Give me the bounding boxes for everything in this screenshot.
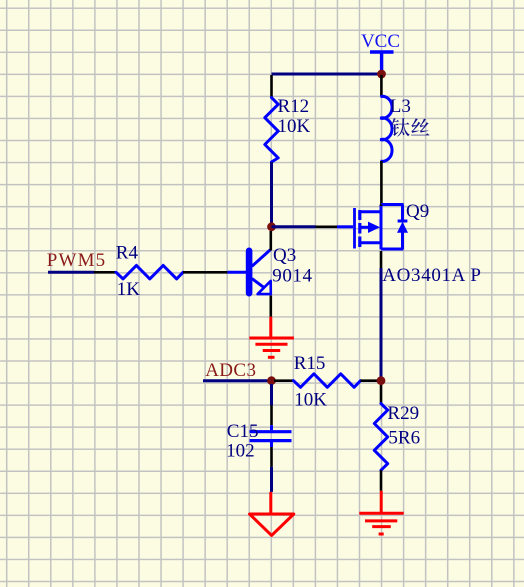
ground earth bottom-right xyxy=(359,491,403,534)
pin Q9 drain top xyxy=(380,205,383,207)
value label 钛丝 xyxy=(391,118,430,137)
resistor R4 xyxy=(116,243,183,300)
capacitor C15 xyxy=(226,421,291,461)
svg-text:VCC: VCC xyxy=(361,31,400,52)
pin C15 top xyxy=(270,405,273,425)
svg-text:10K: 10K xyxy=(278,116,311,137)
svg-text:R12: R12 xyxy=(278,96,310,117)
resistor R12 xyxy=(265,75,311,162)
pin R29 bottom xyxy=(380,470,383,491)
wire C15 top xyxy=(270,384,273,405)
pin Q9 source bottom xyxy=(380,251,383,268)
svg-text:R4: R4 xyxy=(116,243,139,264)
wire top rail xyxy=(272,73,382,76)
node gate junction xyxy=(267,222,276,231)
pin C15 bottom xyxy=(270,447,273,467)
pin R29 top xyxy=(380,385,383,404)
resistor R29 xyxy=(374,403,420,470)
svg-text:R15: R15 xyxy=(294,353,326,374)
svg-text:102: 102 xyxy=(226,441,255,462)
svg-text:R29: R29 xyxy=(387,403,419,424)
pin R15 right xyxy=(361,379,379,382)
node R29 junction xyxy=(377,376,386,385)
svg-text:C15: C15 xyxy=(227,421,259,442)
svg-text:PWM5: PWM5 xyxy=(47,250,107,271)
ground triangle bottom-left xyxy=(250,492,294,536)
pin R4 right xyxy=(183,271,227,274)
pin R15 left xyxy=(274,379,294,382)
svg-text:9014: 9014 xyxy=(272,265,312,286)
pin R4 left xyxy=(94,271,116,274)
svg-text:ADC3: ADC3 xyxy=(205,360,256,381)
inductor L3 xyxy=(380,75,411,205)
wire R12 to node xyxy=(270,162,273,227)
wire PWM5 xyxy=(48,271,94,274)
wire gate xyxy=(272,225,316,228)
mosfet Q9 AO3401A xyxy=(337,201,482,286)
ground earth under Q3 xyxy=(249,317,294,358)
svg-text:AO3401A P: AO3401A P xyxy=(382,265,481,286)
pin Q9 gate xyxy=(316,226,338,229)
node ADC3 junction xyxy=(267,376,276,385)
svg-text:Q9: Q9 xyxy=(406,201,429,222)
node VCC junction xyxy=(377,70,386,79)
wire Q9 to node xyxy=(380,268,383,381)
resistor R15 xyxy=(294,353,361,410)
svg-text:Q3: Q3 xyxy=(273,245,296,266)
power port VCC xyxy=(361,31,400,73)
wire C15 to ground xyxy=(270,467,273,492)
svg-text:5R6: 5R6 xyxy=(388,428,420,449)
svg-text:L3: L3 xyxy=(390,96,411,117)
wire ADC3 xyxy=(203,379,268,382)
transistor Q3 9014 xyxy=(227,231,312,317)
svg-text:10K: 10K xyxy=(294,389,327,410)
svg-text:1K: 1K xyxy=(117,279,141,300)
